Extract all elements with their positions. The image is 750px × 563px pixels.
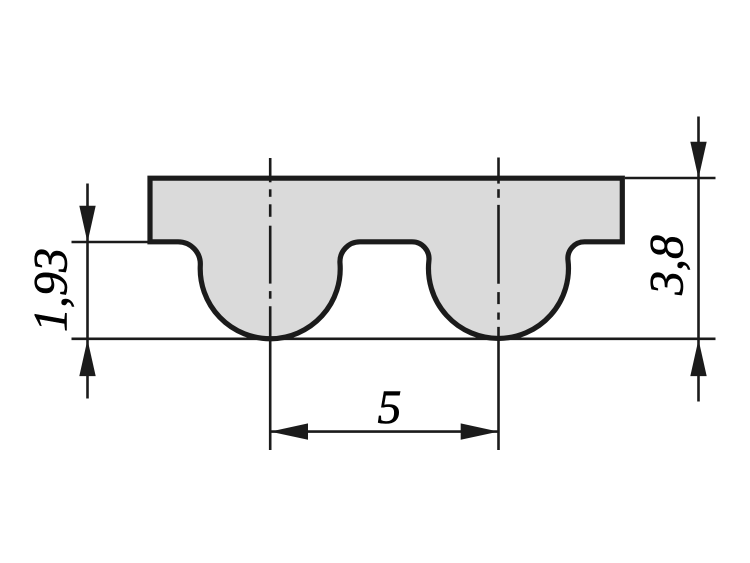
- dimension text 3,8 (rotated): [651, 236, 690, 296]
- dimension line 1,93 (vertical, left): [86, 184, 89, 399]
- dimension text 5: [378, 392, 400, 424]
- extension line left for dim 1,93 (tooth root line): [72, 241, 149, 244]
- arrowhead up at bottom of dim 3,8: [690, 340, 706, 377]
- dimension text 1,93 (rotated): [35, 250, 74, 331]
- extension line below tooth 2 center (for dim 5): [497, 327, 500, 450]
- arrowhead down at top of dim 1,93: [79, 206, 95, 243]
- centerline tooth 1 (dash-dot): [269, 158, 272, 299]
- arrowhead up at bottom of dim 1,93: [79, 340, 95, 377]
- belt profile cross-section (two teeth), gray fill with thick outline: [150, 178, 622, 339]
- arrowhead left of dim 5: [270, 423, 308, 439]
- centerline tooth 2 (dash-dot): [497, 158, 500, 320]
- extension line below tooth 1 center (for dim 5): [269, 306, 272, 450]
- extension line bottom (tooth tip line, shared by 1,93 and 3,8): [72, 337, 716, 340]
- dimension line 5 (horizontal, bottom): [270, 430, 498, 433]
- arrowhead right of dim 5: [461, 423, 499, 439]
- extension line top right for dim 3,8 (belt top line): [625, 177, 716, 180]
- dimension line 3,8 (vertical, right): [697, 117, 700, 402]
- arrowhead down at top of dim 3,8: [690, 142, 706, 179]
